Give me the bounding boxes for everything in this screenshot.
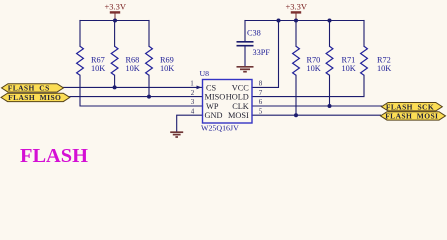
svg-text:+3.3V: +3.3V — [105, 2, 127, 12]
svg-text:VCC: VCC — [232, 83, 250, 92]
svg-text:33PF: 33PF — [253, 48, 271, 57]
svg-text:WP: WP — [206, 102, 219, 111]
svg-text:4: 4 — [191, 107, 195, 115]
svg-text:10K: 10K — [377, 64, 391, 73]
svg-text:FLASH CS: FLASH CS — [8, 84, 50, 93]
svg-text:MISO: MISO — [205, 93, 226, 102]
svg-text:10K: 10K — [342, 64, 356, 73]
svg-text:FLASH: FLASH — [20, 145, 88, 167]
svg-text:U8: U8 — [200, 69, 210, 78]
svg-text:10K: 10K — [160, 64, 174, 73]
svg-text:8: 8 — [259, 80, 263, 88]
svg-text:1: 1 — [190, 80, 194, 88]
svg-text:2: 2 — [191, 89, 195, 97]
svg-text:+3.3V: +3.3V — [286, 2, 308, 12]
svg-text:MOSI: MOSI — [228, 111, 249, 120]
svg-text:10K: 10K — [126, 64, 140, 73]
svg-text:10K: 10K — [91, 64, 105, 73]
svg-text:FLASH MISO: FLASH MISO — [8, 93, 61, 102]
svg-text:CLK: CLK — [232, 102, 249, 111]
svg-text:7: 7 — [259, 89, 263, 97]
svg-text:FLASH MOSI: FLASH MOSI — [385, 112, 438, 121]
svg-text:GND: GND — [205, 111, 223, 120]
svg-text:W25Q16JV: W25Q16JV — [201, 123, 239, 132]
svg-text:C38: C38 — [247, 28, 261, 37]
svg-text:6: 6 — [259, 98, 263, 106]
svg-text:HOLD: HOLD — [226, 93, 249, 102]
svg-text:3: 3 — [191, 98, 195, 106]
svg-text:10K: 10K — [307, 64, 321, 73]
svg-text:CS: CS — [206, 83, 217, 92]
svg-text:5: 5 — [259, 107, 263, 115]
svg-text:FLASH SCK: FLASH SCK — [386, 102, 434, 111]
